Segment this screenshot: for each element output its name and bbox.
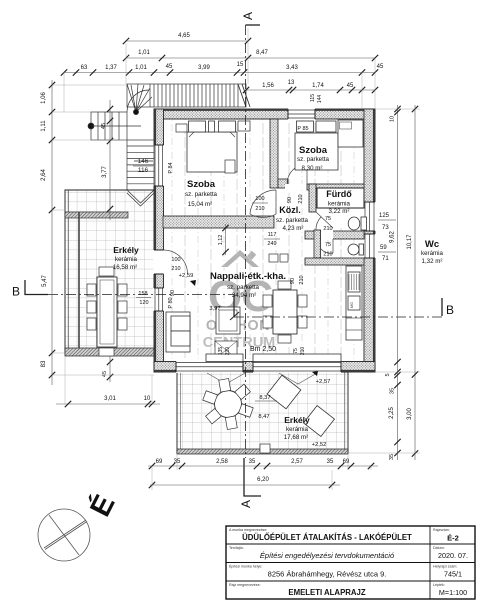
svg-text:MG: MG bbox=[350, 302, 354, 308]
svg-text:9,62: 9,62 bbox=[390, 231, 396, 243]
svg-text:45: 45 bbox=[102, 371, 108, 377]
svg-text:2,58: 2,58 bbox=[216, 459, 228, 465]
svg-text:5,47: 5,47 bbox=[42, 275, 48, 287]
stair lower-left flight bbox=[88, 112, 141, 140]
interior wall szoba1/szoba2 vertical bbox=[270, 119, 278, 188]
svg-text:Építési munka helye:: Építési munka helye: bbox=[229, 564, 262, 569]
svg-text:1,12: 1,12 bbox=[218, 235, 224, 246]
svg-text:M=1:100: M=1:100 bbox=[439, 588, 467, 597]
svg-text:3,43: 3,43 bbox=[286, 65, 298, 71]
svg-text:3,01: 3,01 bbox=[104, 396, 116, 402]
svg-text:A: A bbox=[239, 500, 253, 508]
svg-text:69: 69 bbox=[156, 459, 163, 465]
window P80 west wall bbox=[153, 288, 164, 311]
svg-text:45: 45 bbox=[166, 64, 173, 70]
window 59/71 east wall bbox=[363, 234, 376, 258]
svg-text:P 84: P 84 bbox=[168, 162, 174, 173]
svg-text:125: 125 bbox=[379, 213, 390, 219]
svg-text:135: 135 bbox=[218, 347, 224, 356]
svg-text:kerámia: kerámia bbox=[421, 250, 444, 257]
svg-text:P 85: P 85 bbox=[297, 126, 308, 132]
svg-text:210: 210 bbox=[255, 206, 264, 212]
svg-text:116: 116 bbox=[138, 167, 149, 174]
table balcony left bbox=[97, 277, 117, 347]
svg-text:6,20: 6,20 bbox=[257, 477, 269, 483]
svg-text:17,68 m²: 17,68 m² bbox=[284, 434, 308, 441]
svg-text:10: 10 bbox=[144, 396, 151, 402]
svg-text:A munka megnevezése:: A munka megnevezése: bbox=[229, 528, 267, 532]
balcony left (Erkely 16,58) tiles bbox=[65, 190, 158, 354]
svg-text:75: 75 bbox=[293, 348, 299, 354]
svg-text:Közl.: Közl. bbox=[279, 205, 301, 215]
left dim column bbox=[51, 80, 53, 385]
window sills south wall bbox=[206, 354, 243, 362]
svg-text:1,01: 1,01 bbox=[135, 65, 147, 71]
door szoba1 arc bbox=[250, 190, 276, 217]
svg-text:13: 13 bbox=[288, 80, 295, 86]
svg-text:45: 45 bbox=[347, 83, 354, 89]
svg-text:Rajz megnevezése:: Rajz megnevezése: bbox=[229, 583, 261, 587]
svg-text:kerámia: kerámia bbox=[328, 201, 351, 208]
top dim row 3 bbox=[64, 72, 375, 74]
svg-text:146: 146 bbox=[138, 158, 149, 165]
section line A-A bbox=[245, 25, 247, 458]
svg-text:8,47: 8,47 bbox=[258, 414, 269, 420]
svg-text:kerámia: kerámia bbox=[115, 256, 138, 263]
chairs around round table bbox=[203, 379, 253, 430]
svg-text:+2,57: +2,57 bbox=[316, 379, 331, 385]
compass north circle bbox=[38, 509, 90, 561]
svg-text:Wc: Wc bbox=[425, 239, 439, 250]
svg-text:35: 35 bbox=[390, 388, 396, 394]
svg-text:210: 210 bbox=[323, 226, 332, 232]
svg-text:35: 35 bbox=[327, 459, 334, 465]
round table balcony bottom bbox=[215, 391, 242, 418]
svg-text:2,25: 2,25 bbox=[389, 407, 395, 419]
balcony bottom (Erkely 17,68) tiles bbox=[177, 372, 348, 453]
svg-text:210: 210 bbox=[299, 275, 305, 284]
bed szoba2 bbox=[295, 121, 338, 170]
svg-text:1,74: 1,74 bbox=[312, 83, 324, 89]
svg-text:69: 69 bbox=[343, 459, 350, 465]
east wall bbox=[364, 109, 375, 372]
right dim line 10,17 / 3,00 bbox=[414, 105, 416, 460]
svg-text:Dátum:: Dátum: bbox=[433, 546, 445, 550]
dim 3,77 stair bbox=[109, 100, 111, 220]
svg-text:144: 144 bbox=[317, 95, 323, 104]
svg-text:Lépték:: Lépték: bbox=[433, 583, 445, 587]
svg-text:Helyrajzi szám:: Helyrajzi szám: bbox=[433, 565, 457, 569]
svg-text:Fürdő: Fürdő bbox=[326, 189, 352, 199]
svg-text:100: 100 bbox=[255, 196, 264, 202]
svg-text:16,58 m²: 16,58 m² bbox=[113, 264, 137, 271]
svg-text:1,32 m²: 1,32 m² bbox=[422, 258, 443, 265]
lounger 1 balcony bottom bbox=[267, 375, 301, 409]
svg-text:63: 63 bbox=[81, 65, 88, 71]
svg-text:745/1: 745/1 bbox=[444, 570, 462, 579]
nightstands szoba1 bbox=[176, 124, 187, 132]
svg-text:1,06: 1,06 bbox=[41, 92, 47, 104]
svg-text:sz. parketta: sz. parketta bbox=[185, 191, 218, 198]
svg-text:1,11: 1,11 bbox=[41, 120, 47, 132]
svg-text:1,56: 1,56 bbox=[262, 83, 274, 89]
balcony left upper band bbox=[65, 212, 128, 218]
south window 1 bbox=[176, 361, 243, 373]
svg-text:10: 10 bbox=[390, 116, 396, 122]
north wall bbox=[154, 109, 375, 119]
door wc arc bbox=[321, 239, 333, 253]
svg-text:sz. parketta: sz. parketta bbox=[276, 217, 309, 224]
interior wall wc west bbox=[314, 230, 321, 258]
svg-text:Erkély: Erkély bbox=[113, 245, 139, 255]
dim 1,12 nappali pier bbox=[225, 224, 227, 255]
toilet furdo bbox=[348, 217, 366, 230]
top dim row 2 (1,01 / 8,47) bbox=[126, 57, 375, 59]
rug with cross bbox=[215, 341, 237, 359]
svg-text:90: 90 bbox=[287, 197, 293, 203]
balcony left bottom parapet bbox=[65, 348, 158, 356]
svg-text:A: A bbox=[241, 12, 255, 20]
bathtub furdo bbox=[317, 188, 364, 208]
svg-text:100: 100 bbox=[171, 257, 180, 263]
svg-text:Erkély: Erkély bbox=[284, 415, 310, 425]
window P84 west wall bbox=[153, 145, 164, 186]
svg-text:10,17: 10,17 bbox=[407, 234, 413, 250]
south wall bbox=[154, 362, 375, 373]
svg-text:P 80: P 80 bbox=[168, 297, 174, 308]
svg-text:3,77: 3,77 bbox=[102, 166, 108, 178]
svg-text:3,97: 3,97 bbox=[209, 306, 220, 312]
svg-text:+2,52: +2,52 bbox=[312, 442, 327, 448]
svg-text:2,57: 2,57 bbox=[291, 459, 303, 465]
window 125/73 east wall bbox=[363, 202, 376, 231]
title block bbox=[226, 526, 475, 599]
svg-text:3,00: 3,00 bbox=[407, 408, 413, 420]
svg-text:90: 90 bbox=[290, 278, 296, 284]
toilet wc bbox=[348, 244, 364, 255]
svg-text:8,37: 8,37 bbox=[259, 395, 270, 401]
svg-text:Szoba: Szoba bbox=[299, 145, 328, 156]
chairs balcony left bbox=[87, 267, 127, 356]
sideboard nappali top bbox=[269, 254, 278, 262]
interior wall under szoba1 horizontal bbox=[163, 216, 274, 228]
parquet floor szoba2 + kozl bbox=[274, 119, 364, 184]
svg-text:+2,59: +2,59 bbox=[179, 273, 194, 279]
svg-text:4,65: 4,65 bbox=[178, 33, 190, 39]
svg-text:3,22 m²: 3,22 m² bbox=[329, 208, 350, 215]
svg-text:B: B bbox=[446, 303, 454, 317]
door szoba2 arc bbox=[287, 164, 307, 184]
svg-text:158: 158 bbox=[138, 291, 147, 297]
bed szoba1 bbox=[187, 121, 237, 172]
right dim line 9,62 + balcony dims bbox=[397, 105, 399, 460]
parquet floor szoba1 bbox=[164, 119, 266, 216]
svg-text:73: 73 bbox=[382, 225, 389, 231]
svg-text:ÜDÜLŐÉPÜLET ÁTALAKÍTÁS - LAKÓÉ: ÜDÜLŐÉPÜLET ÁTALAKÍTÁS - LAKÓÉPÜLET bbox=[242, 533, 412, 542]
svg-text:75: 75 bbox=[325, 216, 331, 222]
section line B-B bbox=[25, 280, 48, 295]
bottom dim row 2 (6,20) bbox=[150, 484, 340, 486]
svg-text:Szoba: Szoba bbox=[187, 179, 216, 190]
svg-text:210: 210 bbox=[300, 347, 306, 356]
desk szoba1 bbox=[225, 160, 235, 173]
parquet floor nappali bbox=[164, 228, 364, 359]
svg-text:kerámia: kerámia bbox=[286, 426, 309, 433]
svg-text:É-2: É-2 bbox=[447, 534, 459, 543]
interior wall kozl/szoba2 + furdo north bbox=[285, 184, 307, 190]
svg-text:15: 15 bbox=[237, 62, 244, 68]
svg-text:EMELETI ALAPRAJZ: EMELETI ALAPRAJZ bbox=[288, 588, 365, 597]
door furdo arc bbox=[316, 212, 333, 230]
interior wall furdo south / wc north bbox=[305, 231, 364, 239]
svg-text:210: 210 bbox=[171, 266, 180, 272]
svg-text:83: 83 bbox=[41, 360, 47, 367]
svg-text:45: 45 bbox=[377, 64, 384, 70]
south window swing marks bbox=[207, 373, 317, 384]
svg-text:B: B bbox=[12, 285, 20, 299]
svg-text:15,04 m²: 15,04 m² bbox=[188, 201, 212, 208]
svg-text:210: 210 bbox=[323, 252, 332, 258]
door 100/210 west wall bbox=[153, 250, 164, 274]
bottom dim row 1 bbox=[148, 465, 378, 467]
svg-text:34,94 m²: 34,94 m² bbox=[232, 292, 256, 299]
window P85 north wall bbox=[288, 108, 315, 120]
svg-text:71: 71 bbox=[382, 256, 389, 262]
svg-text:Bm 2,50: Bm 2,50 bbox=[250, 346, 276, 353]
svg-text:Rajzszám:: Rajzszám: bbox=[433, 528, 450, 532]
dining table bbox=[273, 290, 297, 334]
balcony left rail line bbox=[78, 212, 80, 348]
svg-text:Építési engedélyezési tervdoku: Építési engedélyezési tervdokumentáció bbox=[260, 551, 394, 560]
svg-text:90: 90 bbox=[170, 290, 176, 296]
stair upper flight band bbox=[127, 84, 250, 107]
svg-text:4,23 m²: 4,23 m² bbox=[283, 225, 304, 232]
stair winder fan bbox=[127, 84, 152, 115]
svg-text:8,30 m²: 8,30 m² bbox=[302, 165, 323, 172]
svg-text:1,37: 1,37 bbox=[105, 65, 117, 71]
svg-text:120: 120 bbox=[139, 300, 148, 306]
interior wall furdo west bbox=[309, 184, 316, 212]
svg-text:2020. 07.: 2020. 07. bbox=[438, 551, 468, 560]
lounger 2 balcony bottom bbox=[304, 406, 335, 437]
svg-text:8256 Ábrahámhegy, Révész utca: 8256 Ábrahámhegy, Révész utca 9. bbox=[268, 570, 387, 579]
svg-text:sz. parketta: sz. parketta bbox=[297, 156, 330, 163]
svg-text:249: 249 bbox=[267, 241, 276, 247]
balcony bottom parapet bbox=[177, 449, 348, 454]
coffee table nappali bbox=[216, 307, 240, 334]
svg-text:75: 75 bbox=[325, 242, 331, 248]
svg-text:5: 5 bbox=[385, 373, 391, 376]
dining chairs bbox=[263, 281, 307, 343]
watermark OC Otthon Centrum logo bbox=[203, 250, 276, 351]
svg-text:35: 35 bbox=[249, 459, 256, 465]
svg-text:Nappali-étk.-kha.: Nappali-étk.-kha. bbox=[210, 271, 286, 282]
kitchen counter east bbox=[346, 266, 362, 340]
svg-text:35: 35 bbox=[174, 459, 181, 465]
svg-text:35: 35 bbox=[389, 454, 395, 460]
dim 3,01 / 10 bottom-left bbox=[56, 403, 160, 405]
svg-text:59: 59 bbox=[380, 245, 387, 251]
extension lines bbox=[52, 28, 420, 490]
svg-text:210: 210 bbox=[298, 194, 304, 203]
svg-text:2,64: 2,64 bbox=[41, 169, 47, 181]
south window 2 bbox=[253, 361, 341, 373]
svg-text:45: 45 bbox=[101, 123, 107, 129]
svg-text:117: 117 bbox=[268, 232, 277, 238]
svg-text:sz. parketta: sz. parketta bbox=[227, 284, 260, 291]
svg-text:115: 115 bbox=[310, 94, 316, 102]
svg-text:3,99: 3,99 bbox=[198, 65, 210, 71]
couch nappali bbox=[166, 312, 190, 352]
left small 45 bbox=[107, 359, 113, 365]
svg-text:1,01: 1,01 bbox=[138, 50, 150, 56]
svg-text:8,47: 8,47 bbox=[256, 50, 268, 56]
svg-text:210: 210 bbox=[225, 347, 231, 356]
interior wall wc south bbox=[305, 258, 364, 265]
stair vertical flight bbox=[127, 140, 154, 206]
top dim row 1 (4,65) bbox=[126, 40, 248, 42]
svg-text:Tervfajta:: Tervfajta: bbox=[229, 546, 244, 550]
top dim row 4 bbox=[246, 89, 375, 91]
west wall bbox=[154, 109, 164, 372]
wardrobe szoba2 bbox=[338, 120, 363, 147]
